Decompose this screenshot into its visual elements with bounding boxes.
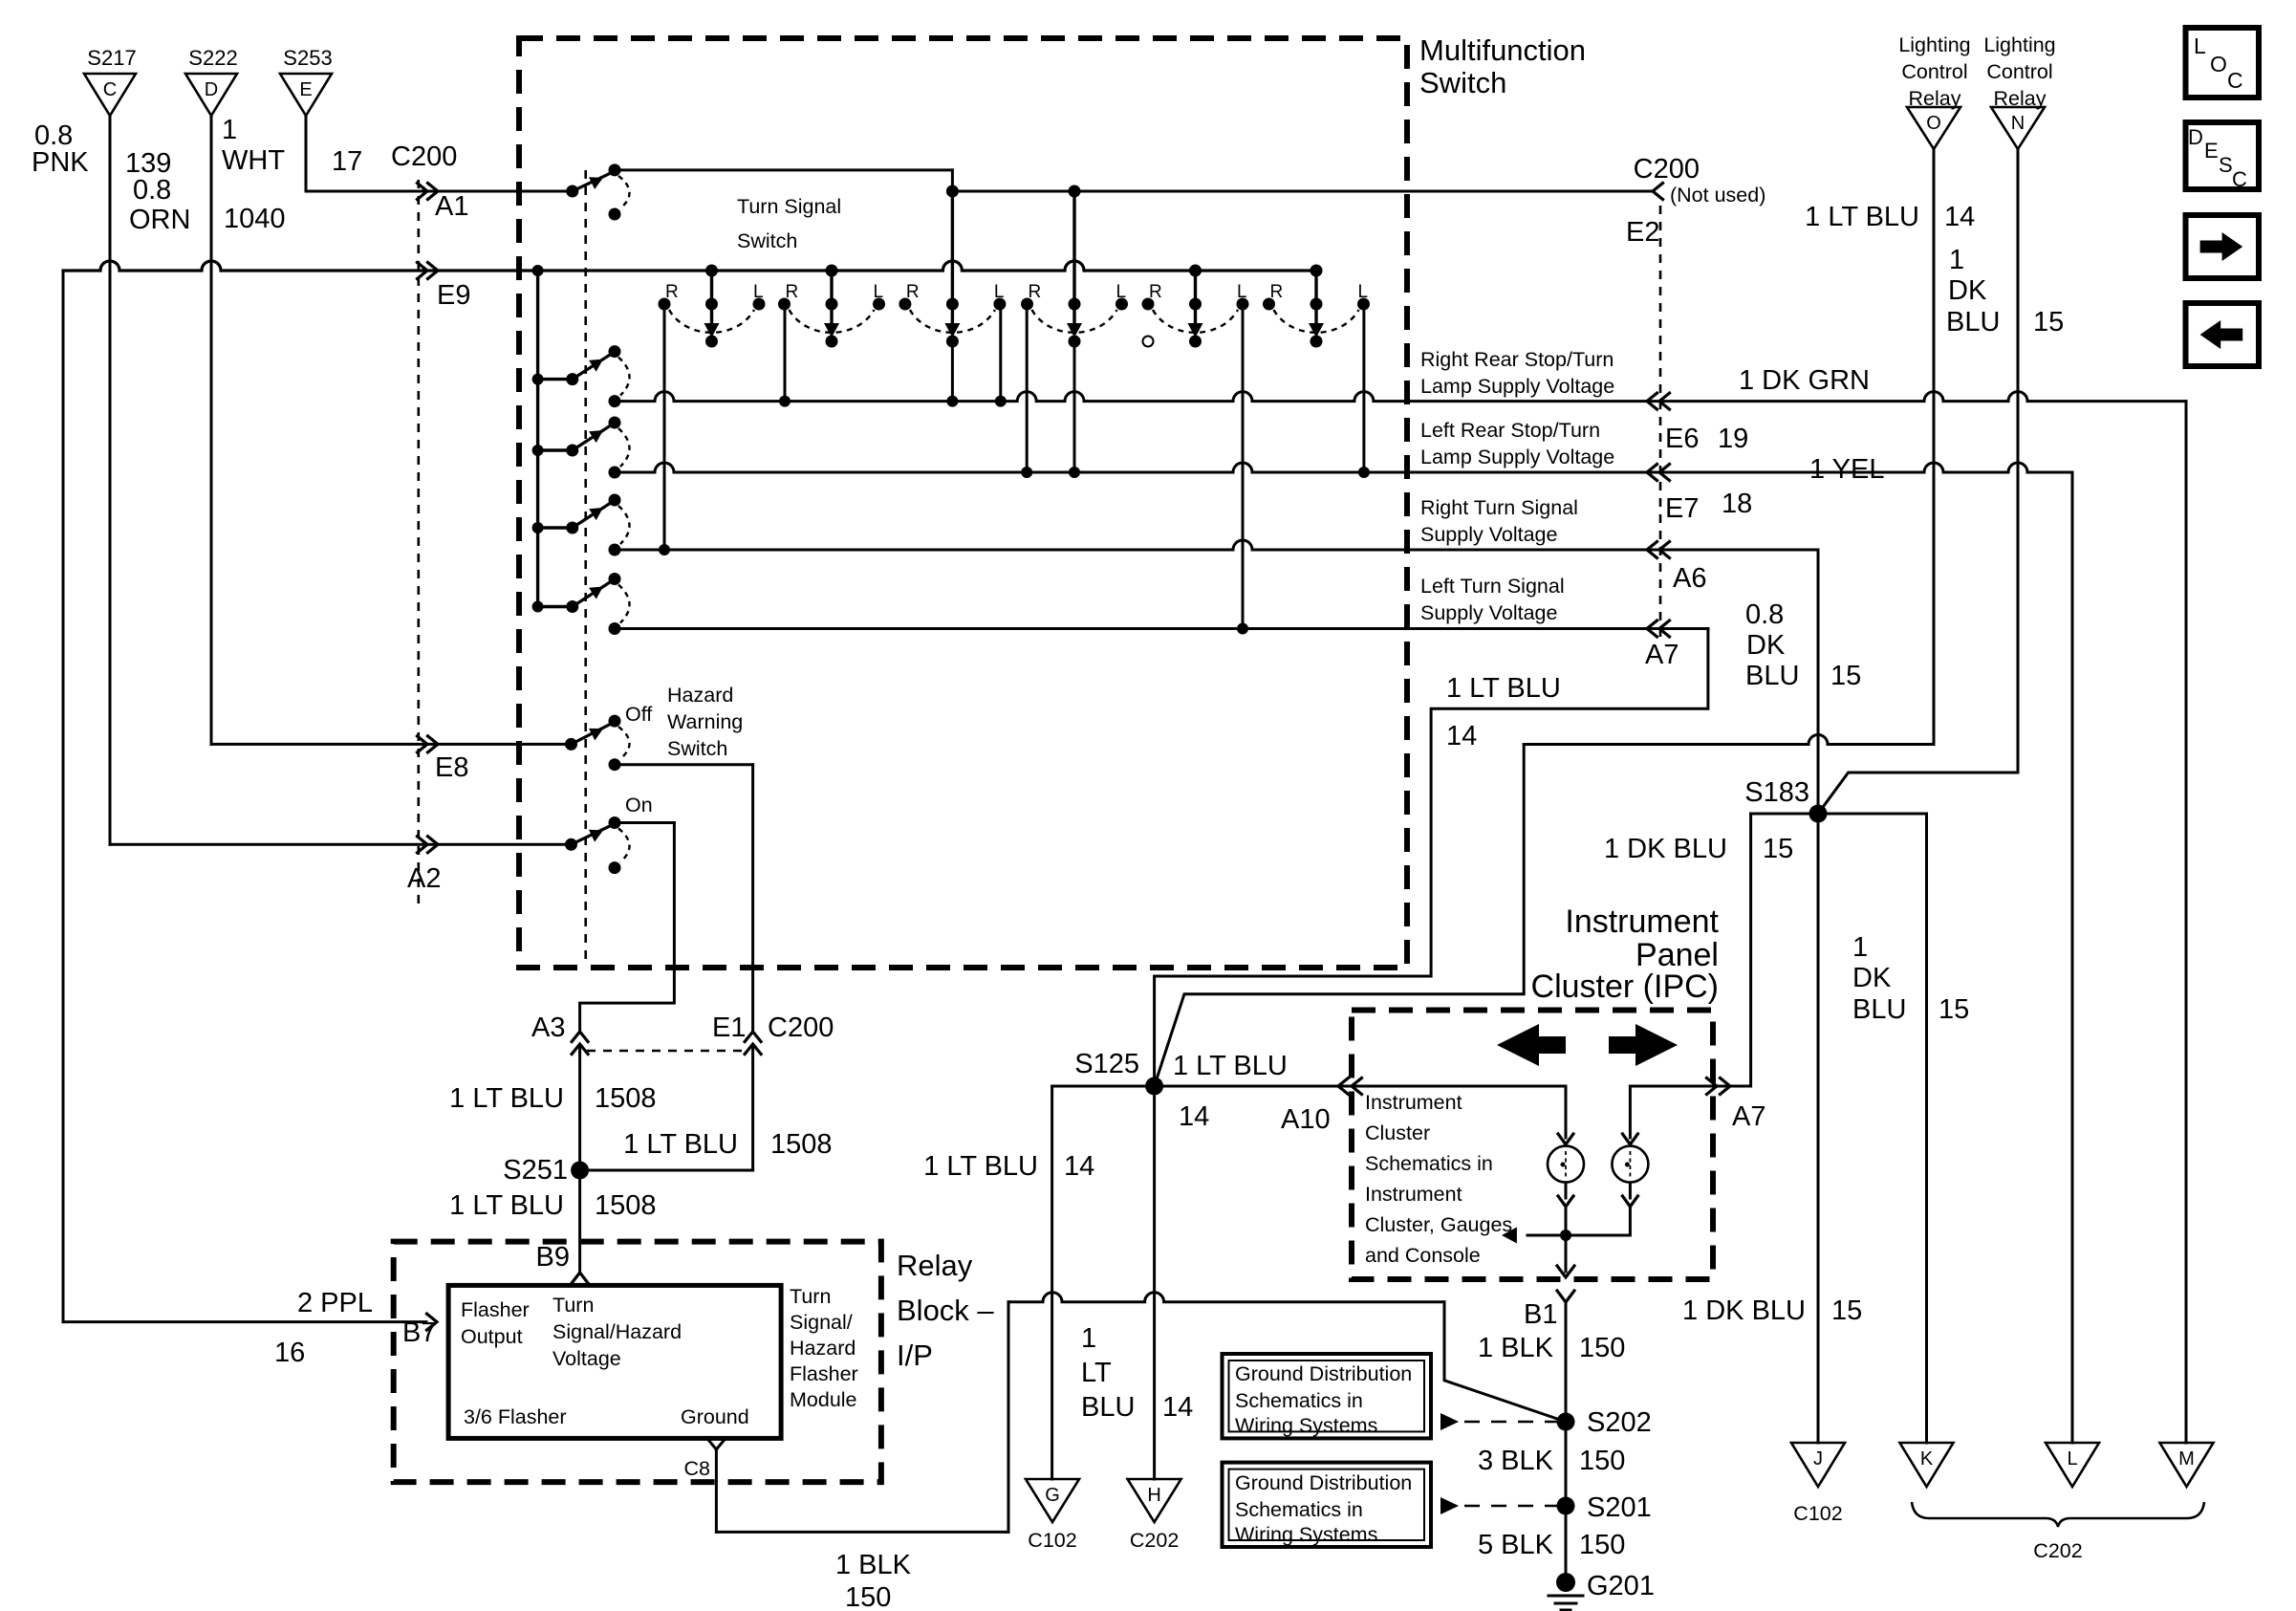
svg-text:Relay: Relay xyxy=(897,1249,973,1282)
svg-text:Hazard: Hazard xyxy=(790,1337,856,1360)
wire S202 to S201 (3 BLK 150) xyxy=(1565,1422,1568,1506)
svg-text:DK: DK xyxy=(1852,963,1892,993)
svg-text:150: 150 xyxy=(1579,1333,1625,1363)
contact pair 5 (R/L) with open contact xyxy=(1189,265,1202,277)
hazard warning switch ON position (A2 feed) xyxy=(565,838,577,851)
ground G201 xyxy=(1556,1573,1575,1592)
row3 corner down to S183 xyxy=(1817,550,1820,814)
wire pair3 center down to row1 xyxy=(951,341,954,402)
svg-text:A7: A7 xyxy=(1645,640,1679,670)
IPC internal wire A10 to left lamp xyxy=(1352,1085,1566,1088)
Multifunction Switch dashed box xyxy=(519,38,1407,968)
svg-text:E1: E1 xyxy=(712,1012,746,1043)
svg-text:Control: Control xyxy=(1901,60,1967,83)
wire 2 PPL 16 from flasher loop to B7 xyxy=(63,1320,426,1323)
wire from N relay down (1 DK BLU 15) xyxy=(2017,149,2020,773)
connector M triangle (C202) xyxy=(2160,1443,2214,1487)
svg-text:S201: S201 xyxy=(1587,1492,1652,1523)
svg-text:3/6 Flasher: 3/6 Flasher xyxy=(464,1405,567,1428)
svg-text:E6: E6 xyxy=(1665,424,1699,454)
svg-text:B7: B7 xyxy=(402,1317,436,1348)
wire pair6 L contact down to row2 xyxy=(1362,304,1365,472)
splice S201 xyxy=(1557,1497,1575,1515)
svg-text:L: L xyxy=(994,282,1005,302)
svg-text:Signal/: Signal/ xyxy=(790,1311,853,1334)
wire S125 diagonal from LT BLU feed xyxy=(1155,745,1525,1087)
wire S125 down to H (1 LT BLU 14) xyxy=(1153,1086,1156,1479)
svg-text:1 LT BLU: 1 LT BLU xyxy=(923,1151,1038,1182)
row2 wire: left rear stop/turn lamp supply voltage (1 YEL 18) xyxy=(615,463,2072,472)
svg-text:2 PPL: 2 PPL xyxy=(297,1288,373,1318)
connector arrow B9 xyxy=(571,1273,590,1285)
C202 brace xyxy=(1912,1502,2204,1527)
gang switch bus from E9 junction xyxy=(536,271,539,607)
thin dashed C200 connector boundary (A3-E1) xyxy=(587,1050,747,1053)
svg-text:Turn Signal: Turn Signal xyxy=(737,195,841,218)
svg-text:14: 14 xyxy=(1446,721,1477,751)
svg-text:14: 14 xyxy=(1064,1151,1094,1182)
svg-text:19: 19 xyxy=(1718,424,1748,454)
connector arrow A7 out of IPC (>>) xyxy=(1707,1078,1718,1095)
splice S251 xyxy=(571,1162,589,1180)
svg-text:1 LT BLU: 1 LT BLU xyxy=(623,1129,738,1160)
svg-text:150: 150 xyxy=(1579,1530,1625,1560)
svg-text:S251: S251 xyxy=(503,1155,568,1186)
svg-text:E: E xyxy=(299,79,312,100)
gang switch 1 (row1 right-rear) xyxy=(566,373,578,385)
svg-text:A6: A6 xyxy=(1673,563,1706,594)
svg-text:15: 15 xyxy=(2033,307,2064,337)
row1 corner down to connector M xyxy=(2185,402,2188,1443)
connector arrow B1 at IPC exit xyxy=(1557,1266,1574,1277)
svg-text:B1: B1 xyxy=(1524,1299,1557,1330)
turn signal switch (top, A1 feed) SPDT symbol xyxy=(566,185,578,198)
svg-text:(Not used): (Not used) xyxy=(1670,184,1765,207)
contact pair 4 (R/L) fed from A1 bus xyxy=(1069,185,1081,198)
wire S125 right to IPC A10 xyxy=(1155,1085,1352,1088)
connector arrow E6 (<<) xyxy=(1647,393,1657,409)
connector K triangle (C202) xyxy=(1900,1443,1954,1487)
gang switch 4 (row4 left-turn) xyxy=(566,600,578,613)
svg-text:0.8: 0.8 xyxy=(1745,599,1784,630)
svg-text:Wiring Systems: Wiring Systems xyxy=(1235,1414,1377,1437)
svg-text:S125: S125 xyxy=(1074,1049,1139,1079)
connector arrow A7 (<<) xyxy=(1647,620,1657,637)
connector arrow E7 (<<) xyxy=(1647,465,1657,481)
dashed reference arrow to S202 xyxy=(1440,1413,1459,1430)
splice S202 xyxy=(1557,1413,1575,1431)
wire O relay LT BLU horizontal xyxy=(1524,735,1934,745)
svg-text:Voltage: Voltage xyxy=(552,1347,621,1370)
svg-text:E2: E2 xyxy=(1626,217,1659,248)
svg-text:1 DK GRN: 1 DK GRN xyxy=(1739,365,1870,396)
svg-text:WHT: WHT xyxy=(222,145,285,176)
svg-text:Instrument: Instrument xyxy=(1365,1091,1462,1114)
wire pair2 R contact down to row1 xyxy=(784,304,787,402)
splice S183 xyxy=(1809,805,1828,823)
wire B1 down to S202 (1 BLK 150) xyxy=(1565,1302,1568,1422)
svg-text:15: 15 xyxy=(1939,994,1969,1025)
svg-text:15: 15 xyxy=(1831,1295,1862,1326)
svg-text:Supply Voltage: Supply Voltage xyxy=(1420,601,1557,624)
svg-text:18: 18 xyxy=(1722,489,1752,519)
svg-text:A2: A2 xyxy=(407,863,441,894)
connector S222 (splice to D) triangle xyxy=(185,74,237,116)
S183 down to J (1 DK BLU 15) xyxy=(1817,814,1820,1443)
svg-text:Left Rear Stop/Turn: Left Rear Stop/Turn xyxy=(1420,419,1600,442)
svg-text:1 LT BLU: 1 LT BLU xyxy=(1173,1051,1288,1081)
svg-text:Schematics in: Schematics in xyxy=(1235,1389,1363,1412)
svg-text:Switch: Switch xyxy=(1419,66,1506,99)
svg-text:1040: 1040 xyxy=(224,204,286,234)
svg-text:5 BLK: 5 BLK xyxy=(1478,1530,1554,1560)
svg-text:ORN: ORN xyxy=(129,205,190,235)
svg-text:R: R xyxy=(786,282,799,302)
IPC internal wire A7 to right lamp xyxy=(1630,1085,1713,1088)
svg-text:L: L xyxy=(1358,282,1369,302)
svg-text:1 DK BLU: 1 DK BLU xyxy=(1604,834,1727,864)
svg-text:E7: E7 xyxy=(1665,493,1699,524)
svg-text:L: L xyxy=(2194,33,2206,58)
svg-text:DK: DK xyxy=(1948,275,1987,306)
svg-text:C8: C8 xyxy=(684,1457,711,1480)
svg-text:S222: S222 xyxy=(188,46,237,70)
connector S217 (splice to C) triangle xyxy=(84,74,136,116)
IPC lamp outputs join xyxy=(1558,1196,1573,1207)
wire: hazard ON contact to A3 xyxy=(615,821,674,824)
IPC lamp 1 (left turn indicator) xyxy=(1558,1134,1573,1144)
svg-text:Flasher: Flasher xyxy=(790,1362,858,1385)
wire C: S217 down to A2 row then right to A2 xyxy=(109,116,112,844)
svg-text:L: L xyxy=(1116,282,1127,302)
hazard warning switch OFF position (E8 feed) xyxy=(565,738,577,751)
row3 wire: right turn signal supply voltage xyxy=(615,540,1818,550)
svg-text:1508: 1508 xyxy=(595,1190,657,1221)
wire: hazard OFF contact to E1 xyxy=(615,763,753,766)
svg-text:16: 16 xyxy=(274,1338,305,1368)
svg-text:L: L xyxy=(2067,1448,2077,1469)
svg-text:Hazard: Hazard xyxy=(667,684,733,707)
svg-text:E9: E9 xyxy=(437,280,470,311)
svg-text:C200: C200 xyxy=(768,1012,834,1043)
thin dashed C200 connector boundary (left) xyxy=(417,180,420,903)
svg-text:1 LT BLU: 1 LT BLU xyxy=(1446,673,1561,704)
IPC right-turn indicator bold arrow xyxy=(1609,1024,1678,1066)
svg-text:Lighting: Lighting xyxy=(1898,33,1970,56)
svg-text:On: On xyxy=(625,794,653,816)
svg-text:Control: Control xyxy=(1986,60,2052,83)
svg-text:Multifunction: Multifunction xyxy=(1419,33,1586,67)
svg-text:A1: A1 xyxy=(435,191,468,222)
svg-text:C202: C202 xyxy=(1130,1529,1179,1552)
svg-text:Lamp Supply Voltage: Lamp Supply Voltage xyxy=(1420,446,1614,468)
wire pair4 center down to row2 xyxy=(1073,341,1076,472)
legend right-arrow box xyxy=(2186,215,2260,278)
contact pair 3 (R/L) fed from A1 bus xyxy=(946,185,959,198)
svg-text:Instrument: Instrument xyxy=(1565,903,1719,940)
svg-text:J: J xyxy=(1813,1448,1823,1469)
row1 wire: right rear stop/turn lamp supply voltage (1 DK GRN 19) xyxy=(615,392,2186,402)
svg-text:O: O xyxy=(2210,52,2227,76)
wire pair3 L contact down to row1 xyxy=(999,304,1002,402)
IPC left-turn indicator bold arrow xyxy=(1497,1024,1566,1066)
svg-text:1 LT BLU: 1 LT BLU xyxy=(449,1083,564,1114)
connector arrow A10 (<<) xyxy=(1338,1078,1349,1095)
svg-text:A3: A3 xyxy=(531,1012,565,1043)
svg-text:BLU: BLU xyxy=(1081,1392,1135,1423)
turn signal/hazard flasher module box xyxy=(448,1285,781,1438)
svg-text:15: 15 xyxy=(1763,834,1793,864)
wire: flasher output loop (left vertical) from E9 corner down to 2 PPL row xyxy=(62,271,65,1322)
svg-text:R: R xyxy=(1029,282,1042,302)
svg-text:1 LT BLU: 1 LT BLU xyxy=(1805,202,1919,232)
legend LOC box xyxy=(2186,28,2260,98)
svg-text:R: R xyxy=(665,282,679,302)
connector S253 (splice to E) triangle xyxy=(280,74,332,116)
svg-text:S: S xyxy=(2219,153,2233,177)
svg-text:Off: Off xyxy=(625,703,652,726)
svg-text:and Console: and Console xyxy=(1365,1244,1481,1267)
svg-text:D: D xyxy=(205,79,218,100)
wire S125 left branch down to G (1 LT BLU 14) xyxy=(1052,1085,1155,1088)
svg-text:L: L xyxy=(874,282,884,302)
svg-text:S217: S217 xyxy=(87,46,136,70)
svg-text:Warning: Warning xyxy=(667,710,743,733)
svg-text:C: C xyxy=(2232,167,2247,191)
svg-text:BLU: BLU xyxy=(1745,661,1799,691)
svg-text:3 BLK: 3 BLK xyxy=(1478,1446,1554,1476)
svg-text:B9: B9 xyxy=(536,1242,570,1273)
connector G triangle (C102) xyxy=(1026,1479,1079,1522)
svg-text:Cluster: Cluster xyxy=(1365,1121,1430,1144)
svg-text:1: 1 xyxy=(222,115,237,145)
svg-text:LT: LT xyxy=(1081,1358,1112,1388)
svg-text:E: E xyxy=(2204,139,2219,163)
svg-text:1: 1 xyxy=(1852,932,1868,963)
svg-text:15: 15 xyxy=(1830,661,1861,691)
svg-text:Cluster (IPC): Cluster (IPC) xyxy=(1531,969,1719,1005)
svg-text:O: O xyxy=(1926,113,1941,134)
svg-text:L: L xyxy=(753,282,764,302)
svg-text:Block –: Block – xyxy=(897,1294,994,1327)
wire 1 BLK 150 from C8 to S202 xyxy=(716,1531,1008,1534)
connector arrow E8 (>>) xyxy=(418,736,428,752)
connector N triangle xyxy=(1991,107,2045,149)
connector L triangle (C202) xyxy=(2046,1443,2099,1487)
svg-text:17: 17 xyxy=(332,146,362,177)
svg-text:Cluster, Gauges: Cluster, Gauges xyxy=(1365,1213,1512,1236)
svg-text:BLU: BLU xyxy=(1852,994,1906,1025)
svg-text:1: 1 xyxy=(1949,245,1964,275)
wire: E1 down to S251 branch xyxy=(751,1048,754,1170)
svg-text:R: R xyxy=(1270,282,1284,302)
svg-text:K: K xyxy=(1920,1448,1934,1469)
svg-text:C102: C102 xyxy=(1793,1502,1842,1525)
svg-text:DK: DK xyxy=(1746,630,1786,661)
connector J triangle (C102) xyxy=(1791,1443,1845,1487)
thin dashed mechanical linkage line of multifunction switch xyxy=(584,170,587,964)
wire A1 bus to E2 xyxy=(952,190,1653,193)
wire D: S222 down to E8 row then right to E8 xyxy=(210,116,213,744)
svg-text:Flasher: Flasher xyxy=(461,1298,530,1321)
svg-text:Module: Module xyxy=(790,1388,857,1411)
legend DESC box xyxy=(2186,122,2260,189)
dashed reference arrow to S201 xyxy=(1440,1497,1459,1514)
svg-text:Supply Voltage: Supply Voltage xyxy=(1420,523,1557,546)
svg-text:S183: S183 xyxy=(1744,777,1809,808)
Relay Block dashed box xyxy=(394,1242,881,1483)
svg-text:R: R xyxy=(906,282,920,302)
gang switch 3 (row3 right-turn) xyxy=(566,522,578,534)
svg-text:1 BLK: 1 BLK xyxy=(1478,1333,1554,1363)
svg-text:N: N xyxy=(2011,113,2025,134)
ground distribution schematics box 2 xyxy=(1223,1463,1432,1547)
svg-text:1508: 1508 xyxy=(770,1129,833,1160)
svg-text:C200: C200 xyxy=(1634,154,1700,185)
svg-text:Ground: Ground xyxy=(681,1405,749,1428)
svg-text:R: R xyxy=(1149,282,1162,302)
svg-text:14: 14 xyxy=(1944,202,1975,232)
contact pair 2 (R/L) xyxy=(826,265,838,277)
svg-text:0.8: 0.8 xyxy=(133,175,171,206)
svg-text:L: L xyxy=(1237,282,1247,302)
S183 diagonal to N relay wire xyxy=(1818,773,2018,814)
svg-text:C: C xyxy=(2227,68,2243,93)
svg-text:A10: A10 xyxy=(1281,1104,1331,1135)
svg-text:1 LT BLU: 1 LT BLU xyxy=(449,1190,564,1221)
svg-text:M: M xyxy=(2178,1448,2195,1469)
connector arrow A1 (>>) xyxy=(418,184,428,200)
svg-text:Schematics in: Schematics in xyxy=(1235,1498,1363,1521)
svg-text:A7: A7 xyxy=(1732,1101,1765,1132)
svg-text:Turn: Turn xyxy=(552,1294,594,1317)
connector arrow A2 (>>) xyxy=(418,837,428,853)
IPC arrow to cluster schematics (left) xyxy=(1527,1234,1566,1237)
svg-text:G201: G201 xyxy=(1587,1571,1655,1601)
connector O triangle xyxy=(1907,107,1960,149)
svg-text:D: D xyxy=(2188,125,2203,149)
svg-text:1 YEL: 1 YEL xyxy=(1809,454,1884,485)
svg-text:150: 150 xyxy=(845,1582,891,1611)
connector H triangle (C202) xyxy=(1128,1479,1181,1522)
svg-text:1: 1 xyxy=(1081,1323,1096,1354)
svg-text:C102: C102 xyxy=(1028,1529,1076,1552)
svg-text:Right Rear Stop/Turn: Right Rear Stop/Turn xyxy=(1420,348,1614,371)
connector arrow A3 (^^) xyxy=(572,1032,588,1042)
connector arrow A6 (<<) xyxy=(1647,542,1657,558)
row4 wire: left turn signal supply voltage (1 LT BLU 14) xyxy=(615,627,1708,630)
ground distribution schematics box 1 xyxy=(1223,1354,1432,1438)
svg-text:Ground Distribution: Ground Distribution xyxy=(1235,1471,1412,1494)
svg-text:S253: S253 xyxy=(283,46,332,70)
svg-text:Switch: Switch xyxy=(737,229,797,252)
svg-text:G: G xyxy=(1045,1485,1060,1506)
thin dashed C200 connector boundary (right, E2-A7) xyxy=(1659,206,1662,642)
svg-text:C: C xyxy=(103,79,117,100)
row2 corner down to connector L xyxy=(2071,472,2074,1443)
svg-text:Signal/Hazard: Signal/Hazard xyxy=(552,1320,682,1343)
svg-text:Left Turn Signal: Left Turn Signal xyxy=(1420,575,1565,598)
svg-text:E8: E8 xyxy=(435,752,468,783)
wire S201 to G201 (5 BLK 150) xyxy=(1565,1506,1568,1579)
svg-text:I/P: I/P xyxy=(897,1339,933,1372)
connector arrow E1 (^^) xyxy=(745,1032,761,1042)
svg-text:C202: C202 xyxy=(2033,1539,2082,1562)
wire pair4 R contact down to row2 xyxy=(1026,304,1029,472)
svg-text:Ground Distribution: Ground Distribution xyxy=(1235,1362,1412,1385)
S183 right branch down to K (1 DK BLU 15) xyxy=(1818,814,1927,1443)
S183 left branch down to IPC A7 (1 DK BLU 15) xyxy=(1751,813,1818,816)
svg-text:PNK: PNK xyxy=(32,147,89,178)
legend left-arrow box xyxy=(2186,303,2260,366)
svg-text:Wiring Systems: Wiring Systems xyxy=(1235,1523,1377,1546)
IPC lamp 2 (right turn indicator) xyxy=(1622,1134,1637,1144)
wire: turn signal switch output to A1 bus xyxy=(615,168,952,171)
wire pair5 L contact down to row4 xyxy=(1242,304,1245,629)
contact pair 1 (R/L) xyxy=(705,265,718,277)
connector arrow E2 (<) not used xyxy=(1653,184,1663,200)
svg-text:BLU: BLU xyxy=(1946,307,2000,337)
contact pair 6 (R/L) xyxy=(1310,265,1323,277)
splice S125 xyxy=(1145,1078,1163,1096)
connector arrow E9 (>>) xyxy=(418,263,428,279)
svg-text:Turn: Turn xyxy=(790,1285,831,1308)
svg-text:Lighting: Lighting xyxy=(1983,33,2055,56)
wire from O relay down (1 LT BLU 14) xyxy=(1933,149,1936,745)
gang switch 2 (row2 left-rear) xyxy=(566,445,578,457)
svg-text:Schematics in: Schematics in xyxy=(1365,1152,1493,1175)
svg-text:Lamp Supply Voltage: Lamp Supply Voltage xyxy=(1420,375,1614,398)
svg-text:Switch: Switch xyxy=(667,737,727,760)
svg-text:S202: S202 xyxy=(1587,1407,1652,1438)
wire: A3 down to S251 and B9 xyxy=(578,1048,581,1272)
svg-text:H: H xyxy=(1147,1485,1160,1506)
svg-text:Right Turn Signal: Right Turn Signal xyxy=(1420,496,1578,519)
row4 path to S125 xyxy=(1155,629,1708,1087)
svg-text:150: 150 xyxy=(1579,1446,1625,1476)
svg-text:1 DK BLU: 1 DK BLU xyxy=(1682,1295,1806,1326)
svg-text:14: 14 xyxy=(1179,1101,1209,1132)
wire E: S253 down then right to C200 A1 xyxy=(305,116,308,191)
wire E9 bus: horizontal from corner to pair6 center xyxy=(63,261,1316,271)
connector arrow B7 (<) xyxy=(427,1314,438,1330)
connector arrow C8 and ground wire 1 BLK 150 xyxy=(706,1438,716,1449)
svg-text:Instrument: Instrument xyxy=(1365,1183,1462,1206)
Instrument Panel Cluster dashed box xyxy=(1352,1011,1713,1280)
svg-text:14: 14 xyxy=(1162,1392,1193,1423)
svg-text:C200: C200 xyxy=(391,142,457,172)
wire pair1 R contact down to row3 xyxy=(663,304,666,550)
svg-text:Output: Output xyxy=(461,1325,523,1348)
svg-text:1508: 1508 xyxy=(595,1083,657,1114)
svg-text:1 BLK: 1 BLK xyxy=(835,1550,912,1580)
